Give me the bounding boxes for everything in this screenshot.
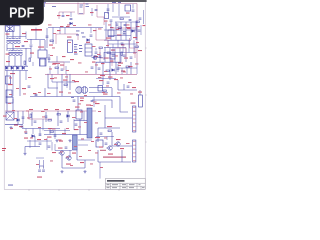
net label N xyxy=(52,6,56,7)
wire xyxy=(39,166,41,169)
label xyxy=(12,109,15,112)
label R921 xyxy=(117,35,122,36)
label C933 xyxy=(44,109,48,110)
wire xyxy=(61,74,63,96)
label xyxy=(116,28,119,31)
capacitor C9j xyxy=(22,46,25,47)
wire xyxy=(14,56,16,66)
wire xyxy=(122,44,124,53)
degauss loop frame xyxy=(78,3,84,15)
wire xyxy=(104,52,137,54)
label xyxy=(6,34,10,35)
label Q904 xyxy=(66,164,71,165)
wire xyxy=(56,56,58,62)
label xyxy=(33,93,37,94)
label D911 xyxy=(19,126,23,127)
label xyxy=(9,93,12,96)
label xyxy=(23,93,26,96)
wire xyxy=(52,81,76,83)
posistor PT901 xyxy=(6,76,11,84)
label xyxy=(50,78,54,79)
wire xyxy=(117,64,119,72)
IC U903 PWM controller xyxy=(68,40,73,53)
capacitor C9u xyxy=(105,143,108,144)
wire xyxy=(90,28,92,34)
net bus B+ primary xyxy=(45,73,137,75)
capacitor C941 xyxy=(100,133,103,134)
transistor Q904 xyxy=(65,156,71,160)
wire xyxy=(43,166,45,169)
label xyxy=(80,111,83,114)
wire xyxy=(78,139,92,141)
wire xyxy=(102,62,104,85)
label xyxy=(27,117,30,120)
wire xyxy=(52,28,54,45)
wire xyxy=(39,129,41,137)
capacitor C9o xyxy=(73,100,76,101)
regulator U906 xyxy=(139,95,143,107)
wire xyxy=(6,103,8,111)
title block xyxy=(106,178,146,189)
wire xyxy=(7,48,31,50)
line filter L901 xyxy=(7,38,21,43)
wire xyxy=(77,159,95,161)
net line step2 xyxy=(97,5,104,25)
capacitor C906 xyxy=(110,20,113,21)
label xyxy=(54,77,57,80)
wire xyxy=(64,129,66,135)
wire xyxy=(125,22,127,40)
label xyxy=(80,162,84,163)
label xyxy=(30,53,34,54)
net label xyxy=(123,34,127,35)
label xyxy=(60,151,63,154)
resistor R9l xyxy=(64,84,67,86)
transistor Q902 xyxy=(114,142,120,146)
label CN902 xyxy=(131,103,136,104)
label xyxy=(102,91,105,94)
wire xyxy=(48,54,50,62)
wire xyxy=(109,62,111,80)
label C907 xyxy=(118,28,122,29)
photocoupler PC901 xyxy=(38,50,47,58)
wire xyxy=(106,137,108,141)
label C917 xyxy=(94,56,98,57)
label R923 xyxy=(118,63,123,64)
label D905 xyxy=(86,42,90,43)
label xyxy=(104,70,108,73)
ground xyxy=(55,139,58,142)
wire xyxy=(5,123,23,125)
label xyxy=(123,71,126,74)
label xyxy=(98,110,101,113)
title text xyxy=(107,180,125,182)
label xyxy=(67,24,70,27)
line filter L903 xyxy=(40,59,47,66)
label C918 xyxy=(60,65,64,66)
ground xyxy=(68,139,71,142)
label Q903 xyxy=(58,148,63,149)
net label xyxy=(123,31,126,32)
label L902 xyxy=(15,46,20,47)
wire xyxy=(40,165,44,167)
label R918 xyxy=(53,63,57,64)
wire xyxy=(108,43,137,45)
wire xyxy=(104,105,106,128)
wire xyxy=(27,39,45,41)
wire xyxy=(29,140,31,148)
label xyxy=(14,125,18,126)
ground xyxy=(9,126,12,129)
label C951 xyxy=(37,177,42,178)
label xyxy=(10,127,13,130)
label xyxy=(6,54,10,55)
switching transformer T901 xyxy=(76,86,82,94)
label T901 xyxy=(74,81,79,82)
label xyxy=(74,51,77,54)
capacitor C9w xyxy=(99,56,102,57)
wire xyxy=(5,70,28,72)
label xyxy=(91,140,94,143)
sheet frame xyxy=(4,2,147,191)
label xyxy=(114,143,117,146)
wire xyxy=(6,44,8,51)
label xyxy=(50,54,53,57)
label xyxy=(114,79,118,80)
wire xyxy=(112,44,114,53)
capacitor C912 xyxy=(30,45,33,46)
label xyxy=(121,44,125,47)
label R941 xyxy=(107,126,112,127)
resistor R915 xyxy=(50,40,53,42)
wire xyxy=(51,74,53,82)
transistor Q903 xyxy=(58,151,64,155)
wire xyxy=(93,57,103,59)
wire xyxy=(133,40,135,52)
label xyxy=(98,28,102,31)
capacitor C933 xyxy=(45,116,48,117)
wire xyxy=(96,78,116,80)
wire xyxy=(74,120,87,122)
title cell text row3 xyxy=(107,186,145,189)
label xyxy=(95,64,98,67)
net label xyxy=(71,97,74,98)
wire xyxy=(121,68,123,74)
wire xyxy=(34,136,36,147)
diode D907 xyxy=(132,30,135,33)
label xyxy=(59,141,63,142)
label xyxy=(101,63,105,64)
wire xyxy=(112,145,132,147)
label xyxy=(48,24,52,27)
wire xyxy=(120,97,128,113)
label xyxy=(49,68,52,71)
label xyxy=(57,30,61,31)
label xyxy=(74,145,77,148)
wire xyxy=(111,88,113,97)
label xyxy=(84,121,87,124)
wire xyxy=(49,129,51,135)
wire xyxy=(104,47,126,49)
diode D913 xyxy=(32,135,35,138)
resistor R926 xyxy=(103,90,106,92)
wire xyxy=(6,96,8,103)
wire xyxy=(57,64,59,74)
label R924 xyxy=(108,77,113,78)
wire xyxy=(39,58,41,66)
wire xyxy=(98,161,131,163)
label xyxy=(81,138,84,141)
connector CN903 xyxy=(133,140,136,162)
wire xyxy=(48,61,70,63)
bridge rectifier BD902 xyxy=(6,112,14,120)
label xyxy=(98,76,102,79)
resistor R9i xyxy=(24,61,26,64)
wire xyxy=(118,67,137,69)
wire xyxy=(91,8,93,16)
wire xyxy=(48,74,58,88)
label xyxy=(133,37,137,38)
capacitor C902 xyxy=(70,19,73,20)
capacitor C9y xyxy=(117,68,120,69)
ground xyxy=(23,152,26,155)
label C903 xyxy=(90,12,94,13)
label xyxy=(8,102,11,105)
label xyxy=(85,71,88,74)
wire xyxy=(65,66,67,74)
label R922 xyxy=(104,58,109,59)
net label F1 xyxy=(86,4,89,5)
capacitor C921 xyxy=(123,33,126,34)
wire xyxy=(25,48,27,66)
capacitor C904 xyxy=(107,9,110,10)
ground xyxy=(83,170,86,173)
wire xyxy=(105,117,132,119)
wire xyxy=(42,119,44,131)
wire xyxy=(12,32,14,40)
label xyxy=(95,122,98,125)
resistor R9j xyxy=(135,46,138,48)
wire xyxy=(6,32,8,40)
label xyxy=(117,92,121,95)
wire xyxy=(62,12,64,15)
wire xyxy=(19,71,21,97)
label xyxy=(84,94,87,97)
net label T xyxy=(80,5,84,6)
resistor R941 xyxy=(108,130,111,132)
wire xyxy=(39,40,41,50)
wire xyxy=(32,62,34,66)
label C923 xyxy=(100,75,105,76)
label C922 xyxy=(111,50,115,51)
wire xyxy=(49,66,51,74)
capacitor C9k xyxy=(138,30,141,31)
label xyxy=(95,103,100,104)
wire xyxy=(114,48,116,63)
label U908 xyxy=(86,105,91,106)
label xyxy=(120,77,123,80)
label xyxy=(30,137,33,140)
label BD901 xyxy=(10,73,15,74)
wire xyxy=(139,90,141,95)
label xyxy=(63,80,68,81)
label xyxy=(57,62,60,65)
label xyxy=(92,62,96,63)
wire xyxy=(62,167,85,169)
wire xyxy=(79,13,83,15)
label xyxy=(52,128,56,131)
net line step6 xyxy=(52,62,64,70)
label xyxy=(99,147,103,148)
warning text hot xyxy=(2,148,6,151)
pin name text column U903 xyxy=(74,44,83,55)
capacitor C915 xyxy=(46,36,49,37)
label JS-0607 model xyxy=(31,29,42,31)
label C908 xyxy=(127,28,131,29)
wire xyxy=(25,146,40,148)
label xyxy=(106,44,109,47)
net line step3 xyxy=(96,28,108,48)
diode row D903 xyxy=(6,67,25,70)
resistor R911 xyxy=(29,58,31,61)
wire xyxy=(89,87,112,89)
capacitor C951 xyxy=(38,170,41,171)
label xyxy=(41,110,45,113)
wire xyxy=(118,89,137,91)
wire xyxy=(118,4,120,16)
wire xyxy=(105,22,107,40)
label U907 xyxy=(75,107,80,108)
label xyxy=(62,133,66,134)
label xyxy=(14,117,17,120)
wire xyxy=(51,142,53,151)
wire xyxy=(107,4,109,14)
wire xyxy=(107,40,109,47)
capacitor C937 xyxy=(54,135,57,136)
capacitor C952 xyxy=(42,170,45,171)
wire xyxy=(44,88,46,97)
capacitor C9n xyxy=(107,82,110,83)
wire xyxy=(92,100,112,108)
label xyxy=(62,56,66,57)
label xyxy=(136,41,139,44)
wire xyxy=(44,130,70,132)
transistor Q905 xyxy=(92,56,98,60)
label xyxy=(108,24,111,27)
wire xyxy=(44,58,46,66)
label xyxy=(26,110,29,113)
net label AC-L xyxy=(112,2,116,3)
wire xyxy=(57,111,59,126)
label xyxy=(58,139,62,142)
wire xyxy=(43,160,45,166)
wire xyxy=(143,10,145,24)
capacitor C9x xyxy=(91,67,94,68)
wire xyxy=(25,129,27,135)
net label F2 xyxy=(86,6,90,7)
label R925 xyxy=(121,71,125,72)
wire xyxy=(120,22,122,40)
thermistor TH901 xyxy=(105,13,109,19)
net line step5 xyxy=(116,48,126,58)
label xyxy=(120,148,124,149)
capacitor C9v xyxy=(65,147,68,148)
wire xyxy=(70,12,72,17)
label xyxy=(44,138,47,141)
capacitor C934 xyxy=(60,121,63,122)
label xyxy=(42,116,45,119)
label R934 xyxy=(48,128,52,129)
label C931 xyxy=(3,116,7,117)
label xyxy=(22,88,26,89)
net bus B+ secondary xyxy=(5,110,96,112)
wire xyxy=(22,111,24,124)
resistor R917 xyxy=(99,47,102,49)
label C910 xyxy=(143,25,146,26)
IC U904 xyxy=(108,30,114,37)
label xyxy=(60,26,64,27)
label TH901 xyxy=(104,21,108,22)
wire xyxy=(110,22,112,40)
capacitor C918 xyxy=(61,69,64,70)
label xyxy=(59,92,63,93)
label Q901 xyxy=(108,154,113,155)
label xyxy=(28,76,32,79)
wire xyxy=(77,97,79,111)
label xyxy=(135,63,139,66)
capacitor C9v1 xyxy=(121,43,124,44)
wire xyxy=(8,56,10,66)
label C906 xyxy=(110,27,114,28)
label xyxy=(52,47,55,50)
capacitor C923 xyxy=(98,68,101,69)
varistor VR901 xyxy=(125,5,131,11)
wire xyxy=(27,140,52,142)
wire xyxy=(126,68,128,74)
resistor R921 xyxy=(118,27,121,29)
wire xyxy=(130,22,132,40)
resistor R932 xyxy=(48,120,51,122)
label R926 xyxy=(103,94,108,95)
capacitor C9r xyxy=(21,126,24,127)
snubber block xyxy=(85,44,92,56)
capacitor C909 xyxy=(129,20,132,21)
transistor Q901 xyxy=(106,146,112,150)
wire xyxy=(125,48,127,63)
label C925 xyxy=(132,87,136,88)
wire xyxy=(44,134,87,136)
label xyxy=(66,156,69,159)
label xyxy=(90,163,93,166)
wire xyxy=(30,47,32,58)
wire xyxy=(32,129,34,135)
wire xyxy=(36,157,44,159)
capacitor C936 xyxy=(39,134,42,135)
capacitor C903 xyxy=(95,10,98,11)
wire xyxy=(112,16,130,18)
wire xyxy=(97,128,99,142)
label xyxy=(88,24,92,27)
wire xyxy=(54,131,56,140)
label xyxy=(99,80,104,81)
label xyxy=(93,30,97,31)
wire xyxy=(12,99,14,103)
label Q902 xyxy=(116,139,121,140)
resistor R903 xyxy=(136,21,139,23)
resistor R931 xyxy=(30,114,32,117)
wire xyxy=(99,52,101,62)
net label DG xyxy=(80,7,83,8)
